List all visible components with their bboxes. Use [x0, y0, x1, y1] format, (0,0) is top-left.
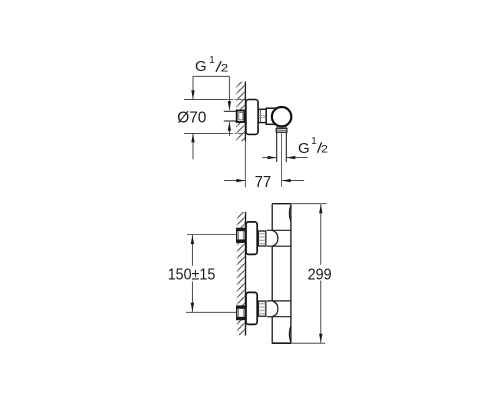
svg-text:299: 299: [308, 267, 332, 284]
dimension G1/2 outlet arrows: [262, 156, 307, 159]
union nut (side view): [258, 109, 266, 122]
dimension G1/2 outlet text: [298, 136, 328, 157]
svg-text:Ø70: Ø70: [177, 110, 206, 127]
dimension G1/2 top label: [195, 55, 228, 75]
dimension 150+-15 line and arrows: [191, 235, 194, 312]
outlet neck: [277, 126, 286, 129]
dimension D70 lower arrow: [191, 133, 194, 159]
bottom hub lines: [267, 301, 291, 317]
dimension 150+-15 extension lines: [186, 235, 237, 313]
top escutcheon (front view): [246, 222, 257, 255]
svg-text:G: G: [298, 140, 310, 157]
body top cap arc: [289, 206, 290, 222]
dimension G1/2 top leader lines: [191, 76, 231, 110]
centerline top (dash-dot): [228, 99, 246, 101]
square union nut behind wall: [237, 111, 245, 123]
body right edge: [290, 204, 292, 344]
body bottom edge: [272, 342, 291, 344]
svg-text:1: 1: [311, 136, 316, 147]
body left edge: [271, 204, 273, 344]
centerline bottom (dash-dot): [228, 132, 246, 134]
svg-text:77: 77: [255, 174, 271, 191]
svg-text:2: 2: [221, 62, 228, 74]
body top edge: [272, 203, 291, 205]
svg-text:G: G: [195, 58, 207, 75]
wall line (side view): [244, 82, 246, 142]
wall extension line for 77: [244, 141, 246, 187]
dimension 299 extension lines: [291, 204, 326, 344]
svg-text:2: 2: [321, 144, 328, 156]
wall hatch (front view): [237, 212, 245, 335]
bottom hex nut: [237, 306, 246, 319]
wall hatch (side view): [236, 82, 245, 141]
svg-text:150±15: 150±15: [168, 267, 216, 284]
bottom escutcheon (front view): [246, 292, 257, 324]
svg-text:1: 1: [209, 55, 214, 66]
top hex nut: [237, 228, 246, 242]
outlet pipe centerline / 77 extension: [281, 133, 283, 187]
outlet pipe: [277, 132, 287, 162]
supply pipe behind wall: [224, 111, 237, 121]
top hub bulge: [272, 230, 278, 246]
handle knob circle: [272, 107, 291, 126]
valve cylinder: [266, 108, 277, 124]
escutcheon (side view): [246, 100, 258, 135]
dimension G1/2 nut lower arrow: [228, 122, 231, 136]
dimension 299 line and arrows: [319, 204, 322, 343]
wall line (front view): [245, 212, 247, 336]
top knurled nut: [258, 231, 265, 246]
top hub lines: [267, 230, 291, 246]
dimension D70 extension lines: [184, 99, 228, 133]
dimension 77 line: [224, 179, 304, 182]
bottom knurled nut: [258, 301, 265, 316]
bottom hub bulge: [272, 301, 278, 317]
body bottom cap arc: [289, 326, 290, 342]
outlet collar: [276, 128, 287, 132]
